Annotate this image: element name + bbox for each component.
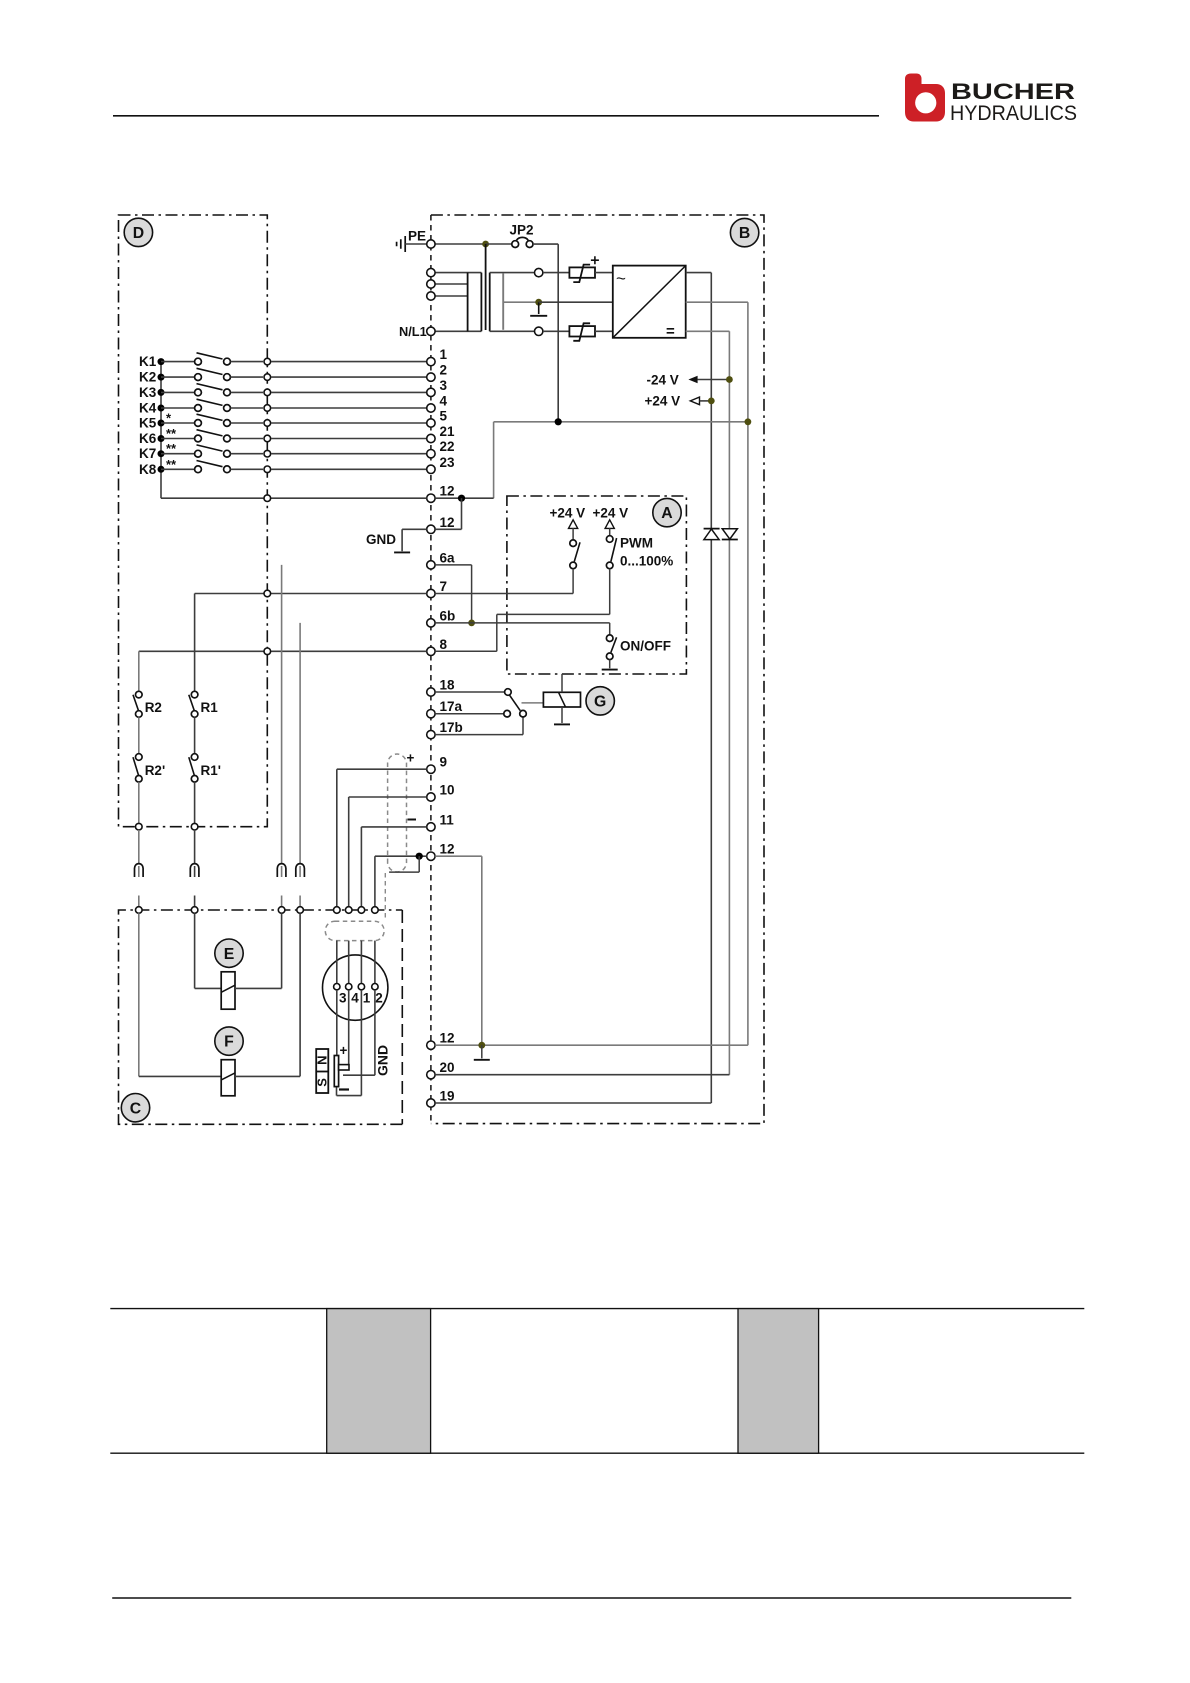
connector hook 6b [296, 864, 305, 877]
label circle G [586, 687, 614, 715]
wire to terminal 2 [271, 376, 427, 378]
label circle E [215, 939, 243, 967]
wire relay G coil top [561, 674, 563, 692]
svg-text:1: 1 [363, 991, 371, 1006]
wire 6b into box C [299, 896, 301, 907]
wire row 12 right (gray) [435, 855, 482, 857]
wire PSU +24V output [686, 272, 712, 274]
wire into relay F coil [139, 1075, 221, 1077]
dashed link shield to housing [384, 873, 386, 921]
contact K4 [195, 399, 231, 411]
svg-text:12: 12 [440, 515, 455, 530]
hook 6b pin [299, 866, 301, 877]
diode V2 (on -24V rail) [722, 529, 738, 540]
wire GND rail to terminal 12 riser [493, 422, 495, 498]
svg-text:17b: 17b [440, 720, 463, 735]
wire PE lead [405, 243, 427, 245]
wire row 20 to -24V rail [435, 1074, 729, 1076]
boundary node K2 on box D edge [264, 374, 271, 381]
column R1 to connector hook [194, 830, 196, 865]
boundary node K1 on box D edge [264, 358, 271, 365]
svg-text:K8: K8 [139, 462, 157, 477]
svg-text:7: 7 [440, 579, 448, 594]
svg-text:**: ** [166, 426, 177, 441]
wire relay F coil right [235, 1075, 300, 1077]
wire row 8 right [435, 650, 497, 652]
junction PE/transformer drop [482, 241, 489, 248]
boundary node K6 on box D edge [264, 435, 271, 442]
node K6 common [158, 435, 165, 442]
boundary node 6b on box C edge [297, 907, 304, 914]
control box A (dash-dot) [507, 496, 687, 674]
junction 12/shield [416, 853, 423, 860]
header rule [113, 115, 879, 117]
boundary node R2 on box C edge [136, 907, 143, 914]
wire pin 4 inside connector [348, 941, 350, 984]
wire to terminal 23 [271, 468, 427, 470]
wire contact K2 to box edge [231, 376, 264, 378]
wire row 12 left [375, 855, 427, 857]
svg-text:18: 18 [440, 678, 456, 693]
wire K5 to contact [161, 422, 194, 424]
switch S2 (PWM) [606, 536, 616, 569]
transformer primary taps [435, 272, 481, 274]
svg-text:20: 20 [440, 1060, 455, 1075]
changeover contact of relay G [504, 689, 526, 717]
svg-text:**: ** [166, 457, 177, 472]
terminal 22 y=453.7 [427, 450, 435, 458]
wire 9 drop (pin 3) [336, 769, 338, 906]
wire to fuse F1 [543, 272, 569, 274]
terminal 3 y=392.4 [427, 388, 435, 396]
boundary node pin2 on box C edge [372, 907, 379, 914]
wire 12 to riser [435, 497, 493, 499]
terminal circle y=284.0 [427, 280, 435, 288]
svg-text:12: 12 [440, 842, 455, 857]
terminal 23 y=469.3 [427, 465, 435, 473]
svg-text:2: 2 [440, 363, 448, 378]
terminal 1 y=361.6 [427, 357, 435, 365]
terminal N/L1 y=331.3 [427, 327, 435, 335]
wire pin 1 inside connector [360, 941, 362, 984]
wire contact K3 to box edge [231, 391, 264, 393]
wire ON/OFF to ground [609, 660, 611, 669]
node K5 common [158, 420, 165, 427]
transformer primary link bar 1 [467, 273, 469, 332]
boundary node pin1 on box C edge [358, 907, 365, 914]
contact K6 [195, 430, 231, 442]
wire center tap to power supply [539, 301, 613, 303]
relay G coil [543, 692, 580, 707]
boundary node pin3 on box C edge [334, 907, 341, 914]
wire PE to JP2 [435, 243, 486, 245]
switch R2' [133, 754, 142, 782]
svg-text:=: = [666, 323, 675, 340]
wire to terminal 21 [271, 438, 427, 440]
svg-text:+24 V: +24 V [645, 394, 681, 409]
svg-text:11: 11 [440, 812, 455, 827]
wire row 12 (GND) bottom [435, 1044, 748, 1046]
terminal 18 y=692.0 [427, 688, 435, 696]
wire JP2 drop to GND rail [557, 244, 559, 422]
wire PE drop through transformer [485, 244, 487, 330]
wire into relay E coil [195, 987, 222, 989]
svg-text:23: 23 [440, 455, 456, 470]
hook R1 pin [194, 866, 196, 877]
wire to terminal 5 [271, 422, 427, 424]
wire to terminal 1 [271, 361, 427, 363]
wire +24V rail vertical [710, 273, 712, 1103]
wire secondary mid (center tap) [503, 301, 539, 303]
wire pin 2 inside connector [374, 941, 376, 984]
node K3 common [158, 389, 165, 396]
GND stub [401, 529, 403, 551]
ground stub center tap [538, 302, 540, 314]
svg-text:6a: 6a [440, 550, 456, 565]
svg-text:K4: K4 [139, 401, 157, 416]
contact K2 [195, 368, 231, 380]
label - on shield [408, 819, 417, 821]
wire contact K8 to box edge [231, 468, 264, 470]
pin contact 3 [334, 984, 340, 990]
wire stub to sensor bottom [336, 1087, 338, 1096]
junction -24V tap [726, 376, 733, 383]
wire arrow to S2 [609, 528, 611, 535]
-24 V arrow (filled) [647, 372, 730, 387]
terminal 20 y=1074.7 [427, 1071, 435, 1079]
wire R2 to relay F [138, 913, 140, 1076]
wire row 17a [435, 713, 504, 715]
wire secondary top [490, 272, 535, 274]
label - sensor [339, 1088, 349, 1090]
label circle D [124, 218, 152, 246]
hook 6a pin [281, 866, 283, 877]
ground GND terminal [394, 551, 410, 553]
boundary node K4 on box D edge [264, 405, 271, 412]
wire K8 to contact [161, 468, 194, 470]
wire row 17b [435, 734, 523, 736]
terminal 12 y=529.3 [427, 525, 435, 533]
wire K6 to contact [161, 438, 194, 440]
terminal 8 y=651.3 [427, 647, 435, 655]
terminal circle fuse top input [535, 268, 543, 276]
magnet N/S [315, 1049, 330, 1093]
terminal circle y=272.6 [427, 268, 435, 276]
terminal 19 y=1103.0 [427, 1099, 435, 1107]
junction 12 bus [458, 495, 465, 502]
svg-text:HYDRAULICS: HYDRAULICS [950, 101, 1077, 125]
wire to fuse F2 [543, 330, 569, 332]
svg-text:0...100%: 0...100% [620, 554, 673, 569]
power supply U1 (AC/DC converter) [613, 266, 686, 340]
wire K1 to contact [161, 361, 194, 363]
fuse F1 (+) [569, 256, 599, 282]
svg-text:6b: 6b [440, 608, 456, 623]
terminal circle y=244 [427, 240, 435, 248]
boundary node K5 on box D edge [264, 420, 271, 427]
switch R2 [133, 691, 142, 717]
wire 17b riser [522, 717, 524, 735]
wire row 18 [435, 691, 504, 693]
svg-text:K6: K6 [139, 431, 157, 446]
svg-text:K7: K7 [139, 446, 156, 461]
Bucher logo red b icon [905, 74, 945, 122]
terminal circle y=296.0 [427, 292, 435, 300]
column R2 bottom [138, 782, 140, 823]
contact K5 [195, 414, 231, 426]
label circle C [121, 1094, 149, 1122]
wire R2 into box C [138, 896, 140, 907]
table bottom rule [110, 1452, 1084, 1454]
wire contact K6 to box edge [231, 438, 264, 440]
svg-text:R1: R1 [201, 700, 219, 715]
svg-text:1: 1 [440, 347, 448, 362]
wire S2 down [609, 569, 611, 615]
terminal 7 y=593.5 [427, 589, 435, 597]
connector housing (dashed) [325, 921, 384, 940]
wire riser to row 8 [496, 614, 498, 651]
boundary node R2 on box D edge [136, 823, 143, 830]
wire junction to JP2 left [486, 243, 512, 245]
wire 10 drop (pin 4) [348, 797, 350, 907]
terminal circle fuse bottom input [535, 327, 543, 335]
wire R1 to relay E [194, 913, 196, 988]
svg-text:R1': R1' [201, 763, 221, 778]
wire relay E to 6a [281, 913, 283, 988]
ground bottom 12 [474, 1059, 490, 1061]
terminal 6b y=622.9 [427, 619, 435, 627]
label circle A [653, 498, 681, 526]
wire 11 drop (pin 1) [360, 827, 362, 907]
svg-text:17a: 17a [440, 699, 463, 714]
boundary node 7 on box D edge [264, 590, 271, 597]
switch R1 [189, 691, 198, 717]
fuse F2 [569, 323, 595, 341]
svg-text:+24 V: +24 V [593, 506, 629, 521]
svg-text:GND: GND [366, 532, 396, 547]
column R2 to connector hook [138, 830, 140, 865]
wire 6b to ON/OFF switch [609, 623, 611, 635]
wire JP2 right [533, 243, 558, 245]
wire terminal 12b [435, 528, 461, 530]
wire 6a drop to 6b [471, 565, 473, 623]
wire K2 to contact [161, 376, 194, 378]
wire terminal 12b to GND [402, 528, 427, 530]
wire fuse F2 to power supply [595, 330, 613, 332]
relay F coil [221, 1060, 235, 1096]
junction JP2 drop / GND rail [555, 418, 562, 425]
svg-text:21: 21 [440, 424, 456, 439]
contact K1 [195, 353, 231, 365]
svg-text:5: 5 [440, 409, 448, 424]
wire relay G coil bottom [561, 707, 563, 723]
round connector circle [323, 955, 388, 1020]
column R2 middle [138, 717, 140, 753]
svg-text:3: 3 [339, 991, 347, 1006]
column 6a (gray) [281, 565, 283, 865]
svg-text:R2: R2 [145, 700, 162, 715]
pin contact 2 [372, 984, 378, 990]
enclosure box C (dash-dot) [401, 910, 403, 1124]
transformer primary link bar 2 [480, 273, 482, 332]
wire PSU 0V output [686, 301, 748, 303]
transformer secondary inner bar [502, 274, 504, 330]
svg-text:N/L1: N/L1 [399, 324, 427, 339]
boundary node R1 on box C edge [191, 907, 198, 914]
wire S1 to row 7 [572, 569, 574, 594]
contact K7 [195, 445, 231, 457]
wire K3 to contact [161, 391, 194, 393]
boundary node R1 on box D edge [191, 823, 198, 830]
wire row 6b right [435, 622, 610, 624]
svg-text:12: 12 [440, 484, 455, 499]
svg-text:-24 V: -24 V [647, 372, 679, 387]
wire PSU -24V output [686, 330, 730, 332]
terminal 17a y=713.7 [427, 710, 435, 718]
wire -24V rail vertical [728, 331, 730, 1074]
terminal 21 y=438.5 [427, 434, 435, 442]
ground ON/OFF [602, 669, 618, 671]
wire arrow to S1 [572, 528, 574, 540]
svg-text:2: 2 [375, 991, 383, 1006]
wire bus 12 row [161, 497, 427, 499]
column R1 middle [194, 717, 196, 753]
svg-text:S: S [315, 1078, 330, 1087]
wire R1 into box C [194, 896, 196, 907]
node K4 common [158, 405, 165, 412]
svg-text:**: ** [166, 441, 177, 456]
enclosure box B (dash-dot) [430, 215, 432, 1124]
column R2 top [138, 651, 140, 691]
wire pin 1 bottom to sensor [337, 1095, 362, 1097]
node K2 common [158, 374, 165, 381]
column R1 bottom [194, 782, 196, 823]
earth symbol at PE [397, 236, 406, 252]
svg-text:PWM: PWM [620, 536, 653, 551]
wire pin 4 to sensor tab [348, 990, 350, 1065]
cable shield (dashed capsule) [388, 754, 407, 872]
svg-text:A: A [661, 505, 672, 522]
arrow up S1 [569, 520, 578, 529]
wire row 19 to +24V rail [435, 1102, 711, 1104]
junction 12 bottom [478, 1042, 485, 1049]
svg-text:4: 4 [351, 991, 359, 1006]
wire 12 drop (pin 2) [374, 856, 376, 906]
svg-text:N: N [315, 1056, 330, 1065]
terminal 5 y=423.0 [427, 419, 435, 427]
wire row 9 [337, 768, 427, 770]
svg-text:+: + [340, 1043, 348, 1058]
wire to terminal 4 [271, 407, 427, 409]
pin contact 4 [346, 984, 352, 990]
svg-text:+: + [407, 751, 415, 766]
wire shield stub left [389, 871, 419, 873]
terminal 17b y=734.6 [427, 730, 435, 738]
svg-text:K5: K5 [139, 416, 157, 431]
contact K8 [195, 461, 231, 473]
junction 6a/6b [468, 620, 475, 627]
ground relay G [554, 723, 570, 725]
wire to terminal 3 [271, 391, 427, 393]
svg-text:8: 8 [440, 637, 448, 652]
switch R1' [189, 754, 198, 782]
wire row 10 [349, 796, 427, 798]
terminal 12 y=856.2 [427, 852, 435, 860]
svg-text:+24 V: +24 V [550, 506, 586, 521]
wire shield stub down [418, 856, 420, 872]
wire fuse F1 to power supply [595, 272, 613, 274]
svg-text:C: C [130, 1100, 141, 1117]
svg-text:9: 9 [440, 755, 448, 770]
connector hook 6a [277, 864, 286, 877]
pin contact 1 [358, 984, 364, 990]
terminal 12 y=1045.2 [427, 1041, 435, 1049]
wire pin 1 down [360, 990, 362, 1096]
wire 12 down to GND row [481, 856, 483, 1045]
hook R2 pin [138, 866, 140, 877]
arrow up S2 [605, 520, 614, 529]
svg-text:G: G [594, 694, 606, 711]
svg-text:K3: K3 [139, 385, 157, 400]
relay E coil [221, 972, 235, 1009]
wire GND rail horizontal y=421.8 [494, 421, 748, 423]
wire pin 3 inside connector [336, 941, 338, 984]
wire contact K4 to box edge [231, 407, 264, 409]
boundary node 8 on box D edge [264, 648, 271, 655]
wire to terminal 22 [271, 453, 427, 455]
wire relay F to 6b [299, 913, 301, 1076]
wire contact to relay G coil [522, 702, 544, 704]
terminal 11 y=826.9 [427, 823, 435, 831]
boundary node K7 on box D edge [264, 450, 271, 457]
wire contact K5 to box edge [231, 422, 264, 424]
junction center tap [535, 299, 542, 306]
wire K7 to contact [161, 453, 194, 455]
column 6b (gray) [299, 623, 301, 865]
enclosure box D (dash-dot) [119, 215, 268, 827]
wire K common bus vertical [160, 362, 162, 499]
terminal 2 y=377.1 [427, 373, 435, 381]
svg-text:F: F [224, 1034, 234, 1051]
wire row 6a right [435, 564, 471, 566]
svg-text:R2': R2' [145, 763, 165, 778]
footer rule [112, 1597, 1071, 1599]
table gray cell 2 [738, 1309, 819, 1454]
wire row 7 right [435, 593, 573, 595]
table gray cell 1 [327, 1309, 431, 1454]
svg-text:4: 4 [440, 394, 448, 409]
junction +24V tap [708, 398, 715, 405]
label circle F [215, 1027, 243, 1055]
svg-text:B: B [739, 225, 750, 242]
wire 6a into box C [281, 896, 283, 907]
wire pin 2 to sensor [343, 1074, 375, 1076]
svg-text:22: 22 [440, 439, 455, 454]
terminal 9 y=769.2 [427, 765, 435, 773]
diode V1 (on +24V rail) [704, 529, 720, 540]
wire pin 3 to sensor top [336, 990, 338, 1056]
svg-text:~: ~ [616, 269, 626, 288]
boundary node K8 on box D edge [264, 466, 271, 473]
wire S2 to row 8 riser [497, 613, 610, 615]
svg-text:GND: GND [375, 1045, 391, 1076]
svg-text:19: 19 [440, 1089, 455, 1104]
terminal 10 y=797.0 [427, 793, 435, 801]
switch S3 (ON/OFF) [606, 635, 616, 660]
wire row 8 left [139, 650, 427, 652]
boundary node K3 on box D edge [264, 389, 271, 396]
wire 0V rail vertical [747, 302, 749, 1045]
